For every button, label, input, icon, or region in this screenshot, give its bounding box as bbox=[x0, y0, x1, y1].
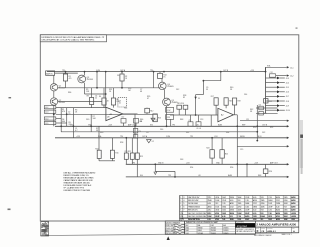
dashed box DEC pack bbox=[118, 98, 127, 107]
svg-text:J2-9: J2-9 bbox=[286, 105, 289, 107]
wire U2 output bbox=[234, 114, 238, 116]
svg-text:7-26: 7-26 bbox=[237, 216, 240, 218]
svg-text:.01: .01 bbox=[68, 113, 71, 115]
diode D1 bbox=[194, 97, 196, 99]
svg-text:TP4: TP4 bbox=[150, 70, 153, 72]
svg-text:DRN J SMITH: DRN J SMITH bbox=[166, 225, 176, 227]
svg-text:1002: 1002 bbox=[284, 216, 288, 218]
svg-text:TRANS 2N1305: TRANS 2N1305 bbox=[188, 205, 200, 208]
wire R28 stubs bbox=[234, 105, 236, 115]
resistor R13 vertical bbox=[153, 114, 157, 122]
diode D3 bbox=[151, 118, 155, 121]
svg-text:82: 82 bbox=[183, 97, 185, 99]
connector J1 pin box B bbox=[44, 110, 56, 113]
transistor Q1 bbox=[50, 84, 57, 91]
svg-text:22: 22 bbox=[95, 97, 97, 99]
svg-text:2N1305: 2N1305 bbox=[223, 228, 228, 230]
svg-text:D664: D664 bbox=[185, 228, 189, 230]
svg-text:R10: R10 bbox=[95, 148, 98, 150]
resistor R6 column bbox=[111, 98, 115, 105]
svg-text:D5: D5 bbox=[264, 113, 266, 115]
resistor R21 bbox=[124, 153, 128, 159]
wire y121 right bbox=[240, 120, 288, 122]
svg-text:R2: R2 bbox=[125, 76, 127, 78]
svg-text:C12: C12 bbox=[270, 72, 273, 74]
svg-text:913: 913 bbox=[215, 203, 218, 205]
svg-text:R50: R50 bbox=[253, 127, 256, 129]
svg-text:A250: A250 bbox=[276, 212, 280, 215]
drawing frame border bbox=[40, 35, 299, 221]
wire R25 stub dn bbox=[221, 158, 223, 164]
svg-text:Q8: Q8 bbox=[107, 117, 109, 119]
junction x257 y131 bbox=[256, 131, 258, 133]
svg-text:2N3605: 2N3605 bbox=[167, 86, 173, 88]
svg-text:913: 913 bbox=[230, 216, 233, 218]
op-amp U2 bbox=[218, 108, 234, 121]
svg-text:A250: A250 bbox=[276, 196, 280, 199]
svg-text:2N36: 2N36 bbox=[230, 197, 234, 199]
wire vertical x91 bbox=[90, 114, 92, 132]
title block approvals box bbox=[165, 221, 184, 234]
svg-text:J1-3: J1-3 bbox=[45, 112, 48, 114]
connector J1 pin box D bbox=[44, 121, 56, 124]
wire R6 stubs bbox=[113, 88, 115, 98]
svg-text:J2-6: J2-6 bbox=[286, 92, 289, 94]
svg-text:TP6: TP6 bbox=[132, 163, 135, 165]
svg-text:UNLESS OTHERWISE: UNLESS OTHERWISE bbox=[166, 222, 180, 224]
svg-text:REF: REF bbox=[258, 175, 261, 177]
svg-text:2 ANALOG AMPLIFIERS A250: 2 ANALOG AMPLIFIERS A250 bbox=[256, 223, 296, 227]
svg-text:J2-5: J2-5 bbox=[286, 87, 289, 89]
svg-text:R8: R8 bbox=[87, 96, 89, 98]
resistor R16 horizontal bbox=[183, 105, 188, 109]
svg-text:OUT A: OUT A bbox=[142, 135, 148, 138]
capacitor C8 box bbox=[133, 128, 137, 133]
svg-text:J2-7: J2-7 bbox=[286, 96, 289, 98]
svg-text:R66: R66 bbox=[68, 92, 71, 94]
svg-text:2N3605: 2N3605 bbox=[211, 233, 216, 235]
connector pin y126 bbox=[287, 125, 289, 127]
svg-text:R44: R44 bbox=[124, 108, 127, 110]
svg-text:C10: C10 bbox=[121, 117, 124, 119]
svg-text:3: 3 bbox=[183, 197, 184, 199]
svg-text:J2-2: J2-2 bbox=[290, 76, 294, 78]
rail mid2 bbox=[61, 131, 257, 133]
wire x170 down bbox=[170, 119, 172, 126]
svg-text:2N36: 2N36 bbox=[230, 210, 234, 212]
svg-text:C15: C15 bbox=[240, 149, 243, 151]
svg-text:D664: D664 bbox=[268, 200, 272, 202]
svg-text:J2-4: J2-4 bbox=[286, 82, 289, 84]
svg-text:A250: A250 bbox=[230, 202, 234, 205]
title strip top row bbox=[180, 218, 299, 221]
wire Q5 down bbox=[166, 106, 168, 126]
wire y164 long bbox=[126, 163, 288, 165]
svg-text:C13: C13 bbox=[200, 119, 203, 121]
svg-text:A250: A250 bbox=[291, 199, 295, 202]
svg-text:DEC NO 74-1305 REV: DEC NO 74-1305 REV bbox=[188, 216, 207, 218]
svg-text:D12: D12 bbox=[176, 89, 179, 91]
svg-text:C11: C11 bbox=[246, 119, 249, 121]
svg-text:1002: 1002 bbox=[222, 210, 226, 212]
drawing title text bbox=[255, 221, 298, 227]
svg-text:2N1309: 2N1309 bbox=[223, 230, 228, 232]
wire y177 long bbox=[126, 176, 288, 178]
svg-text:C17: C17 bbox=[146, 132, 149, 134]
wire R25 stub up bbox=[221, 138, 223, 150]
svg-text:6-30: 6-30 bbox=[208, 203, 211, 205]
resistor R15 horizontal bbox=[177, 105, 182, 109]
svg-text:4: 4 bbox=[180, 206, 181, 208]
svg-text:R60: R60 bbox=[100, 132, 103, 134]
svg-text:1305: 1305 bbox=[284, 213, 288, 215]
capacitor C5 box bbox=[188, 122, 193, 126]
wire x137 drop2 bbox=[136, 159, 138, 177]
wire bus x265 bbox=[265, 67, 267, 113]
wire R1 legs bbox=[65, 72, 67, 74]
svg-text:1305: 1305 bbox=[284, 197, 288, 199]
resistor R8 column bbox=[90, 98, 94, 105]
diode D4 box bbox=[259, 106, 264, 110]
wire y113 right link bbox=[256, 112, 278, 114]
wire J1D out bbox=[56, 122, 67, 124]
svg-text:R15 R16: R15 R16 bbox=[177, 103, 184, 105]
svg-text:4700: 4700 bbox=[238, 206, 242, 208]
svg-text:100K: 100K bbox=[207, 216, 212, 218]
printed arrow mark bbox=[167, 236, 170, 240]
wire x237 long vertical bbox=[236, 115, 238, 177]
wire U1 fb vertical bbox=[134, 114, 136, 138]
wire x137 drop bbox=[136, 138, 138, 153]
svg-text:GND B: GND B bbox=[158, 163, 164, 165]
svg-text:2212: 2212 bbox=[253, 203, 257, 205]
transistor Q5 bbox=[163, 98, 171, 106]
svg-text:D4: D4 bbox=[259, 104, 261, 106]
svg-text:1002: 1002 bbox=[268, 203, 272, 205]
diode D6 bbox=[154, 172, 157, 175]
wire R24 stub up bbox=[211, 138, 213, 150]
capacitor C6 box bbox=[196, 122, 201, 126]
svg-text:R21 R22: R21 R22 bbox=[125, 151, 131, 153]
wire x97 leg bbox=[96, 72, 98, 88]
svg-text:1002: 1002 bbox=[245, 206, 249, 208]
svg-text:6-30: 6-30 bbox=[253, 197, 256, 199]
svg-text:IN645: IN645 bbox=[198, 230, 202, 232]
wire x154 drop bbox=[153, 72, 155, 88]
wire Q rail mid bbox=[58, 87, 160, 89]
wire step bottom bbox=[196, 94, 204, 96]
right margin vertical drawing number bbox=[300, 135, 303, 138]
wire J1C out bbox=[56, 118, 61, 120]
svg-text:R23: R23 bbox=[140, 156, 143, 158]
svg-text:2N1309: 2N1309 bbox=[87, 79, 93, 81]
svg-text:A250: A250 bbox=[245, 215, 249, 218]
wire C10 stub bbox=[123, 123, 125, 126]
svg-text:1: 1 bbox=[180, 197, 181, 199]
svg-text:J1-5: J1-5 bbox=[45, 123, 48, 125]
transistor Q4 bbox=[159, 82, 167, 90]
resistor R1 hanging bbox=[63, 74, 67, 81]
diode D2 bbox=[147, 140, 152, 143]
svg-text:4700: 4700 bbox=[276, 215, 280, 218]
wire R18 stub bbox=[225, 105, 227, 108]
svg-text:7-26: 7-26 bbox=[268, 210, 271, 212]
svg-text:2N1305: 2N1305 bbox=[59, 102, 65, 104]
resistor R25 bbox=[220, 150, 224, 158]
wire Q1 emitter to Q2 bbox=[53, 91, 55, 98]
wire y146 right bbox=[237, 145, 288, 147]
wire x221 top drop bbox=[220, 72, 222, 81]
svg-text:IN3606: IN3606 bbox=[198, 228, 203, 230]
connector pin y146 bbox=[287, 145, 289, 147]
svg-text:A250: A250 bbox=[291, 205, 295, 208]
svg-text:R11: R11 bbox=[115, 152, 118, 154]
svg-text:RES 470 5%: RES 470 5% bbox=[188, 210, 198, 212]
svg-text:D001: D001 bbox=[185, 233, 189, 235]
svg-text:D1: D1 bbox=[198, 98, 200, 100]
svg-text:R64: R64 bbox=[226, 132, 229, 134]
capacitor C11 box bbox=[134, 119, 139, 124]
connector pin y138 bbox=[287, 137, 289, 139]
connector pin y177 bbox=[287, 176, 289, 178]
svg-text:R12: R12 bbox=[150, 110, 153, 112]
svg-text:CODE: CODE bbox=[261, 228, 265, 230]
svg-text:A250-0-1: A250-0-1 bbox=[267, 230, 276, 233]
svg-text:D20: D20 bbox=[86, 119, 89, 121]
rail lower long bbox=[55, 137, 288, 139]
svg-text:2212: 2212 bbox=[208, 197, 212, 199]
svg-text:TP4: TP4 bbox=[120, 136, 123, 138]
svg-text:2N36: 2N36 bbox=[276, 203, 280, 205]
svg-text:A250: A250 bbox=[291, 209, 295, 212]
svg-text:OUT A: OUT A bbox=[120, 69, 126, 72]
resistor R4 column bbox=[102, 98, 106, 105]
wire Q3 collector down bbox=[84, 83, 86, 94]
svg-text:R56: R56 bbox=[230, 167, 233, 169]
resistor R10 bbox=[97, 150, 101, 158]
wire x160 drop bbox=[159, 72, 161, 74]
svg-text:A250: A250 bbox=[253, 199, 257, 202]
wire R26 link bbox=[265, 164, 267, 169]
svg-text:UNUSED PINS NOT SHOWN: UNUSED PINS NOT SHOWN bbox=[63, 190, 90, 192]
svg-text:D14: D14 bbox=[244, 94, 247, 96]
svg-text:J1-4: J1-4 bbox=[45, 119, 48, 121]
resistor R22 bbox=[130, 153, 134, 159]
svg-text:A250: A250 bbox=[292, 212, 297, 215]
svg-text:6-30: 6-30 bbox=[253, 213, 256, 215]
svg-text:2N1305: 2N1305 bbox=[211, 228, 216, 230]
svg-text:J2-1: J2-1 bbox=[290, 67, 294, 69]
general notes box bbox=[40, 35, 106, 42]
digital logo bbox=[235, 223, 255, 228]
svg-text:913: 913 bbox=[238, 200, 241, 202]
op-amp U1 bbox=[106, 107, 123, 120]
svg-text:R62: R62 bbox=[186, 132, 189, 134]
wire top rail bbox=[47, 71, 266, 73]
svg-text:REV: REV bbox=[292, 228, 295, 230]
wire step right top bbox=[203, 80, 220, 82]
svg-text:D664: D664 bbox=[245, 203, 249, 205]
svg-text:.01: .01 bbox=[119, 103, 121, 105]
svg-text:R26: R26 bbox=[269, 171, 272, 173]
wire x126 drop bbox=[125, 138, 127, 153]
svg-text:1002: 1002 bbox=[268, 219, 272, 221]
svg-text:R28: R28 bbox=[238, 101, 241, 103]
svg-text:SHEET 1 OF 1: SHEET 1 OF 1 bbox=[282, 234, 292, 236]
svg-text:DIODE D664: DIODE D664 bbox=[188, 203, 198, 205]
wire C5 stubs bbox=[190, 115, 192, 122]
svg-text:1305: 1305 bbox=[215, 206, 219, 208]
svg-text:D664: D664 bbox=[222, 206, 226, 208]
svg-text:A250: A250 bbox=[276, 209, 280, 212]
wire C6 stubs bbox=[198, 115, 200, 122]
svg-text:D3: D3 bbox=[156, 120, 158, 122]
svg-text:6-30: 6-30 bbox=[276, 206, 279, 208]
svg-text:A250: A250 bbox=[291, 196, 295, 199]
wire R8 stubs bbox=[91, 88, 93, 98]
connector pin second right bbox=[287, 74, 289, 76]
wire vertical x99 upper bbox=[98, 126, 100, 150]
wire R4 stubs bbox=[103, 88, 105, 98]
wire x196 vertical bbox=[195, 95, 197, 115]
wire Q4 top bbox=[161, 79, 163, 83]
wire vertical x61 bbox=[60, 108, 62, 132]
svg-text:TP5: TP5 bbox=[190, 136, 193, 138]
wire resistor bottom link bbox=[99, 160, 115, 162]
svg-text:COM: COM bbox=[166, 136, 171, 138]
wire x211 drop bbox=[210, 115, 212, 126]
wire top rail right step up bbox=[265, 67, 267, 71]
svg-text:1305: 1305 bbox=[261, 200, 265, 202]
wire step vertical bbox=[202, 81, 204, 95]
wire x247 drop bbox=[246, 164, 248, 177]
svg-text:C3: C3 bbox=[119, 100, 121, 102]
conversion chart table bbox=[185, 221, 236, 234]
resistor R17 bbox=[214, 98, 218, 105]
svg-text:RES 1K 1/4W: RES 1K 1/4W bbox=[188, 200, 199, 202]
svg-text:4: 4 bbox=[183, 200, 184, 202]
svg-text:R17: R17 bbox=[211, 96, 214, 98]
svg-text:4700: 4700 bbox=[215, 197, 219, 199]
wire R2 legs bbox=[121, 72, 123, 74]
wire node line y114 bbox=[56, 113, 158, 115]
wire C11 stub bbox=[135, 123, 137, 126]
wire Q4-Q5 link bbox=[164, 90, 166, 99]
svg-text:913: 913 bbox=[261, 213, 264, 215]
svg-text:913: 913 bbox=[261, 219, 264, 221]
wire Q3 emitter drop bbox=[84, 72, 86, 76]
svg-text:R48: R48 bbox=[180, 119, 183, 121]
wire second output stub bbox=[276, 75, 287, 77]
svg-text:2212: 2212 bbox=[276, 200, 280, 202]
svg-text:R4: R4 bbox=[99, 96, 101, 98]
capacitor C9 box bbox=[133, 135, 137, 138]
wire R17 stub bbox=[215, 105, 217, 115]
svg-text:NUMBER: NUMBER bbox=[267, 228, 273, 230]
svg-text:C6 .01: C6 .01 bbox=[196, 128, 201, 130]
transistor Q2 bbox=[50, 98, 57, 105]
svg-text:1002: 1002 bbox=[222, 197, 226, 199]
wire x186 stub bbox=[185, 109, 187, 115]
wire Q rail lower bbox=[58, 101, 102, 103]
wire vertical x112 lower bbox=[111, 158, 113, 160]
svg-text:913: 913 bbox=[261, 210, 264, 212]
svg-text:D9: D9 bbox=[117, 75, 119, 77]
wire vertical x73 bbox=[72, 108, 74, 138]
drawing number row bbox=[255, 227, 298, 233]
connector J1 pin box C bbox=[44, 117, 56, 120]
svg-text:913: 913 bbox=[261, 197, 264, 199]
wire y115 mid bbox=[170, 114, 218, 116]
svg-text:TP3: TP3 bbox=[168, 175, 171, 177]
svg-text:4700: 4700 bbox=[261, 203, 265, 205]
svg-text:J2-10: J2-10 bbox=[286, 110, 290, 112]
diode D5 box bbox=[259, 111, 264, 115]
wire Q2 emitter down bbox=[53, 105, 55, 126]
svg-text:4700: 4700 bbox=[284, 200, 288, 202]
svg-text:R18: R18 bbox=[229, 100, 232, 102]
wire x257 vertical bbox=[256, 105, 258, 141]
svg-text:2N36: 2N36 bbox=[208, 200, 212, 202]
svg-text:470: 470 bbox=[69, 78, 72, 80]
capacitor C10 box bbox=[121, 119, 126, 124]
svg-text:J2-8: J2-8 bbox=[286, 101, 289, 103]
svg-text:REF: REF bbox=[242, 125, 245, 127]
logo cell border bbox=[235, 221, 255, 234]
svg-text:2N1309: 2N1309 bbox=[211, 230, 216, 232]
svg-text:AMP OUT: AMP OUT bbox=[270, 162, 278, 165]
wire x126 drop2 bbox=[125, 159, 127, 164]
svg-text:7-26: 7-26 bbox=[268, 213, 271, 215]
svg-text:6-30: 6-30 bbox=[222, 216, 225, 218]
svg-text:3: 3 bbox=[180, 203, 181, 205]
svg-text:100K: 100K bbox=[237, 213, 242, 215]
svg-text:6-30: 6-30 bbox=[253, 210, 256, 212]
wire vertical x99 lower bbox=[98, 158, 100, 160]
svg-text:D662: D662 bbox=[185, 230, 189, 232]
svg-text:7: 7 bbox=[183, 210, 184, 212]
svg-text:2212: 2212 bbox=[207, 213, 211, 215]
wire x145 stub bbox=[146, 107, 148, 110]
parts list table bbox=[180, 196, 299, 219]
resistor R19 bbox=[264, 99, 268, 103]
svg-text:6: 6 bbox=[183, 206, 184, 208]
sheet bottom edge bbox=[40, 233, 299, 236]
rail mid long bbox=[55, 125, 288, 127]
svg-text:1305: 1305 bbox=[284, 210, 288, 212]
power box +15 bbox=[166, 107, 174, 112]
svg-text:7-26: 7-26 bbox=[222, 203, 225, 205]
svg-text:digital: digital bbox=[237, 224, 247, 228]
svg-text:4700: 4700 bbox=[215, 210, 219, 212]
svg-text:2N3605: 2N3605 bbox=[223, 233, 228, 235]
svg-text:47: 47 bbox=[147, 98, 149, 100]
wire y171 step bbox=[154, 164, 156, 171]
svg-text:CAP 22UF 35V: CAP 22UF 35V bbox=[188, 196, 200, 199]
wire x177 stub bbox=[178, 109, 180, 115]
svg-text:D: D bbox=[257, 230, 259, 233]
connector pin top right bbox=[287, 66, 289, 68]
svg-text:COM: COM bbox=[96, 70, 101, 72]
svg-text:470: 470 bbox=[62, 111, 65, 113]
scan speck left lower bbox=[8, 209, 11, 211]
svg-text:AMP OUT: AMP OUT bbox=[128, 124, 136, 127]
svg-text:6-30: 6-30 bbox=[230, 200, 233, 202]
svg-text:A250: A250 bbox=[292, 215, 297, 218]
wire x132 drop bbox=[131, 138, 133, 153]
resistor R28 column bbox=[233, 98, 237, 105]
svg-text:DEC NO 74-1305 REV: DEC NO 74-1305 REV bbox=[188, 213, 207, 215]
